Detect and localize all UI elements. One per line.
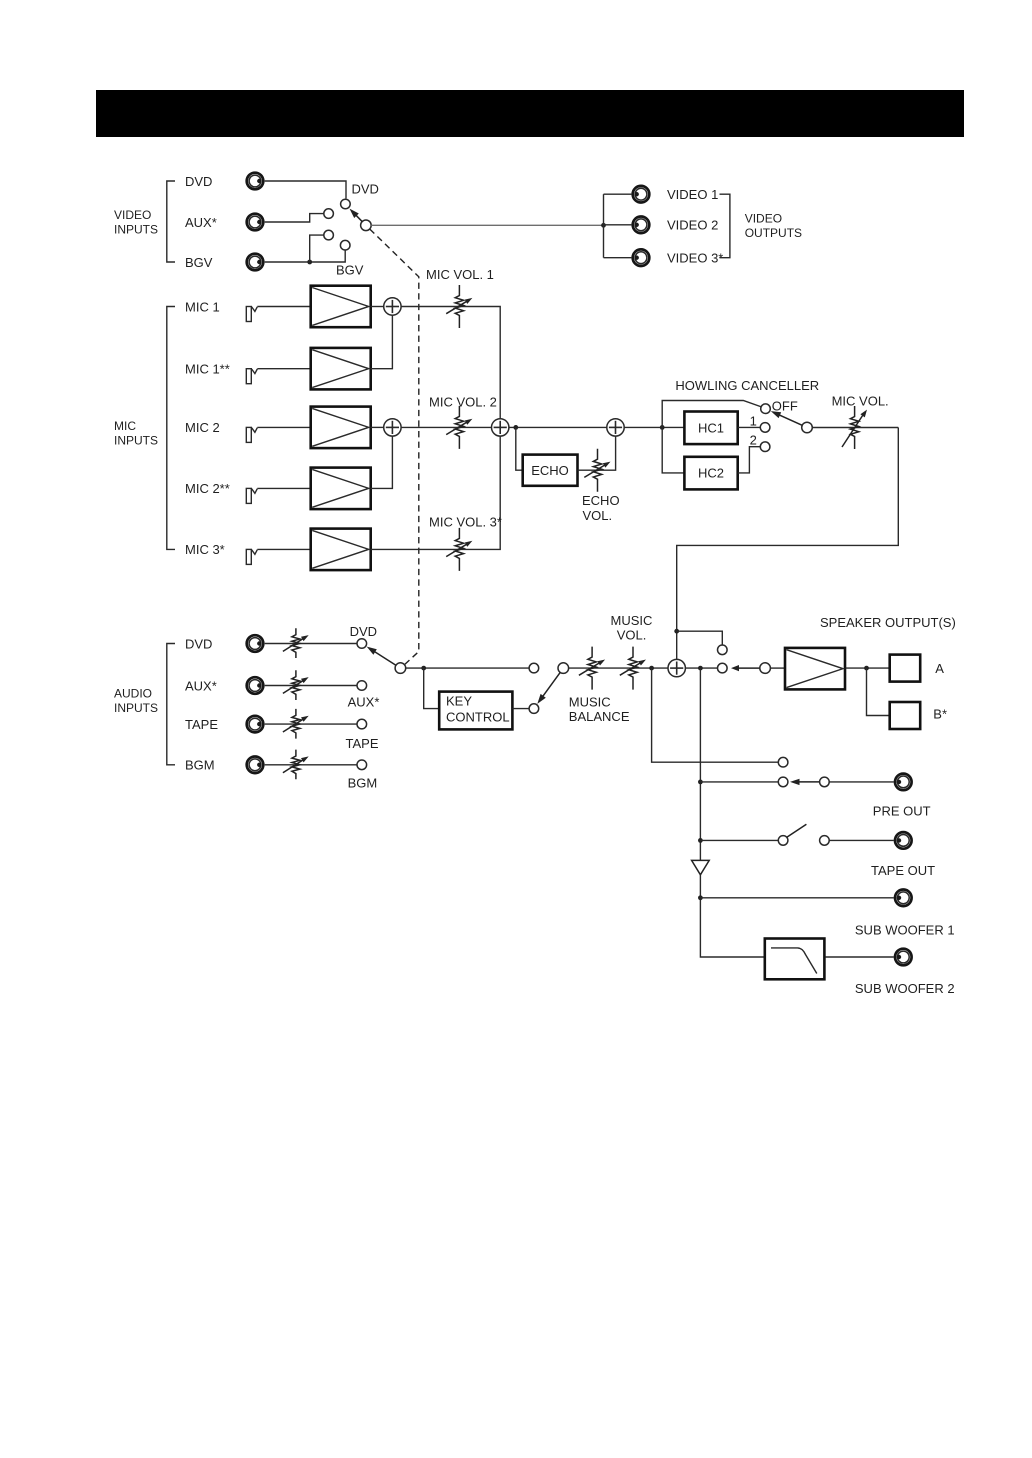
wire MIC 1** to amp: [257, 368, 310, 370]
wire MIC 1** amp to sum MIC1: [371, 315, 393, 369]
svg-text:VOL.: VOL.: [583, 508, 613, 523]
resistor AUX* trim: [283, 670, 309, 700]
bracket video inputs: [167, 181, 175, 262]
svg-text:BGM: BGM: [348, 775, 378, 790]
pole video selector: [361, 220, 372, 231]
wire MIC 2 sum to mix sum: [401, 426, 492, 428]
connector PRE OUT: [895, 774, 912, 791]
contact tape out switch left: [778, 836, 788, 846]
wire MIC 1 to amp: [257, 306, 310, 308]
wire key control branch: [424, 668, 440, 709]
pole balance switch: [558, 663, 569, 674]
connector AUX* audio input: [247, 677, 264, 694]
svg-text:VIDEO 1: VIDEO 1: [667, 187, 718, 202]
label MIC INPUTS: [114, 419, 158, 448]
svg-text:B*: B*: [933, 707, 947, 722]
svg-text:MIC: MIC: [114, 419, 136, 433]
svg-text:MIC VOL. 1: MIC VOL. 1: [426, 267, 494, 282]
bracket mic inputs: [167, 307, 175, 550]
node tape out branch: [698, 838, 703, 843]
contact speaker switch: [718, 663, 728, 673]
wire BGV video to selector: [265, 250, 346, 262]
wire video output vertical bus: [603, 194, 605, 258]
svg-text:TAPE: TAPE: [185, 717, 218, 732]
wire stub to VIDEO 2: [604, 224, 632, 226]
wire MIC 1 amp to sum: [371, 306, 384, 308]
wire MIC 2** to amp: [257, 487, 310, 489]
wire video selector arm with arrow: [354, 213, 362, 222]
wire pre-out direct branch down: [652, 668, 779, 762]
amplifier MIC 3*: [311, 529, 371, 571]
svg-text:AUX*: AUX*: [185, 678, 217, 693]
resistor TAPE trim: [283, 709, 309, 739]
connector BGV video input: [247, 254, 264, 271]
svg-text:HC1: HC1: [698, 420, 724, 435]
wire HC2 out: [738, 447, 761, 473]
node mute branch junction: [674, 629, 679, 634]
svg-text:BGV: BGV: [336, 263, 364, 278]
connector SUB WOOFER 1: [895, 890, 912, 907]
buffer amp triangle: [692, 860, 710, 874]
wire MIC 3* to amp: [257, 548, 310, 550]
svg-text:MIC VOL. 3*: MIC VOL. 3*: [429, 514, 502, 529]
svg-text:DVD: DVD: [352, 182, 379, 197]
wire sub woofer 1 row: [700, 897, 893, 899]
wire echo branch down: [516, 427, 523, 470]
wire MIC 2** amp to sum MIC2: [371, 436, 393, 489]
contact AUX* (audio selector): [357, 681, 367, 691]
amplifier MIC 1**: [311, 348, 371, 390]
contact pre out post-sum: [778, 777, 788, 787]
block HC2: [684, 457, 737, 490]
amplifier MIC 1: [311, 286, 371, 328]
wire mic bus down to main sum: [677, 428, 899, 660]
wire video bus to outputs: [371, 224, 603, 226]
svg-text:KEY: KEY: [446, 694, 472, 709]
contact tape out switch right: [820, 836, 830, 846]
svg-text:OFF: OFF: [772, 398, 798, 413]
resistor MIC VOL. master: [842, 406, 867, 449]
svg-text:AUDIO: AUDIO: [114, 687, 152, 701]
resistor MUSIC BALANCE: [579, 647, 605, 690]
wire AUX* video to selector: [265, 214, 324, 222]
wire sub bus below triangle: [700, 875, 764, 958]
wire TAPE audio to selector: [265, 723, 357, 725]
svg-text:BALANCE: BALANCE: [569, 709, 630, 724]
wire AUX* audio to selector: [265, 685, 357, 687]
connector MIC 3* jack: [246, 549, 257, 564]
label ECHO VOL.: [582, 493, 620, 523]
svg-text:TAPE: TAPE: [346, 736, 379, 751]
block speaker B: [890, 702, 921, 729]
contact DVD (audio selector): [357, 639, 367, 649]
svg-text:MIC 1: MIC 1: [185, 299, 220, 314]
svg-text:ECHO: ECHO: [582, 493, 620, 508]
svg-text:OUTPUTS: OUTPUTS: [745, 226, 802, 240]
connector BGM audio input: [247, 757, 264, 774]
svg-text:HC2: HC2: [698, 466, 724, 481]
connector TAPE OUT: [895, 832, 912, 849]
amplifier power amp: [785, 648, 845, 690]
wire low pass filter to connector: [825, 956, 893, 958]
contact DVD (video selector): [341, 199, 351, 209]
contact HC1 position 1: [760, 423, 770, 433]
wire KEY CONTROL out: [512, 708, 529, 710]
svg-text:VIDEO 3*: VIDEO 3*: [667, 250, 723, 265]
resistor BGM trim: [283, 750, 309, 780]
wire output bus vertical: [699, 668, 701, 861]
svg-text:MIC 3*: MIC 3*: [185, 542, 225, 557]
wire MIC 1 sum to corner: [401, 307, 500, 420]
contact direct (balance switch): [529, 663, 539, 673]
block ECHO: [523, 455, 578, 486]
resistor ECHO VOL.: [584, 449, 610, 492]
node echo return sum: [607, 419, 624, 436]
svg-text:A: A: [935, 661, 944, 676]
resistor MIC VOL. 1: [446, 285, 472, 328]
connector DVD audio input: [247, 635, 264, 652]
wire howling selector arm with arrow: [778, 414, 802, 425]
label MUSIC VOL.: [611, 613, 653, 643]
wire speaker switch arm with arrow: [737, 667, 760, 669]
wire MIC 2 to amp: [257, 426, 310, 428]
node pre-out direct branch: [649, 666, 654, 671]
svg-text:MUSIC: MUSIC: [569, 694, 611, 709]
contact BGV upper (video selector): [324, 230, 334, 240]
svg-text:SUB WOOFER 2: SUB WOOFER 2: [855, 981, 955, 996]
svg-text:MIC 2: MIC 2: [185, 420, 220, 435]
svg-text:ECHO: ECHO: [531, 463, 569, 478]
connector TAPE audio input: [247, 716, 264, 733]
wire MIC 3* amp through vol to mix sum: [371, 436, 501, 550]
node video output junction: [601, 223, 606, 228]
block HC1: [684, 412, 737, 445]
connector AUX* video input: [247, 214, 264, 231]
contact BGM (audio selector): [357, 760, 367, 770]
node mic mix sum: [492, 419, 509, 436]
connector MIC 2 jack: [246, 427, 257, 442]
wire HC1 out: [738, 426, 761, 428]
node key control branch: [421, 666, 426, 671]
bracket audio inputs: [167, 644, 175, 765]
svg-text:CONTROL: CONTROL: [446, 710, 510, 725]
ganged switch dashed link video-audio: [370, 229, 419, 665]
bracket video outputs: [720, 194, 730, 258]
contact BGV lower (video selector): [340, 240, 350, 250]
contact mic-direct (hanging): [718, 645, 728, 655]
block low pass filter: [765, 939, 825, 980]
wire audio bus to balance switch: [406, 667, 529, 669]
svg-text:VIDEO 2: VIDEO 2: [667, 218, 718, 233]
block KEY CONTROL: [439, 692, 512, 730]
wire DVD video to selector: [265, 181, 346, 199]
svg-text:VOL.: VOL.: [617, 628, 647, 643]
svg-text:2: 2: [750, 432, 757, 447]
svg-text:AUX*: AUX*: [348, 694, 380, 709]
contact pre-out direct: [778, 757, 788, 767]
svg-text:MIC VOL.: MIC VOL.: [832, 394, 889, 409]
svg-text:INPUTS: INPUTS: [114, 222, 158, 236]
resistor MIC VOL. 2: [446, 406, 472, 449]
node sub woofer 1 branch: [698, 895, 703, 900]
contact TAPE (audio selector): [357, 719, 367, 729]
node output bus branch: [698, 666, 703, 671]
pole howling selector: [802, 422, 813, 433]
svg-text:DVD: DVD: [185, 636, 212, 651]
connector DVD video input: [247, 173, 264, 190]
resistor MUSIC VOL.: [620, 647, 646, 690]
connector SUB WOOFER 2: [895, 949, 912, 966]
connector VIDEO 1 output: [633, 186, 650, 203]
svg-text:BGV: BGV: [185, 255, 213, 270]
svg-text:INPUTS: INPUTS: [114, 434, 158, 448]
wire main sum to speaker switch: [685, 667, 717, 669]
contact AUX* (video selector): [324, 209, 334, 219]
connector MIC 2** jack: [246, 488, 257, 503]
svg-text:MUSIC: MUSIC: [611, 613, 653, 628]
node pre out branch: [698, 780, 703, 785]
wire tape out open switch arm: [787, 824, 807, 837]
svg-text:MIC 2**: MIC 2**: [185, 481, 230, 496]
svg-text:TAPE OUT: TAPE OUT: [871, 863, 935, 878]
svg-text:VIDEO: VIDEO: [745, 211, 782, 225]
svg-text:PRE OUT: PRE OUT: [873, 803, 931, 818]
wire power amp to speaker A: [846, 667, 890, 669]
label VIDEO OUTPUTS: [745, 211, 802, 239]
node BGV junction: [307, 260, 312, 265]
wire MIC 2 amp to sum: [371, 426, 384, 428]
node sum MIC1: [384, 298, 401, 315]
wire DVD audio to selector: [265, 643, 357, 645]
pole audio selector: [395, 663, 406, 674]
label AUDIO INPUTS: [114, 687, 158, 716]
contact key control (balance switch): [529, 704, 539, 714]
node sum MIC2: [384, 419, 401, 436]
wire pre out row: [700, 781, 778, 783]
connector VIDEO 2 output: [633, 217, 650, 234]
wire balance switch arm with arrow: [542, 672, 560, 697]
amplifier MIC 2: [311, 407, 371, 449]
wire howling pole to mic vol: [812, 427, 898, 429]
pole pre out switch: [820, 777, 830, 787]
wire ECHO out through echo vol: [578, 436, 616, 470]
wire stub to VIDEO 1: [604, 193, 632, 195]
contact HC2 position 2: [760, 442, 770, 452]
svg-text:VIDEO: VIDEO: [114, 208, 151, 222]
amplifier MIC 2**: [311, 468, 371, 510]
wire pole to power amp: [770, 667, 785, 669]
resistor DVD trim: [283, 628, 309, 658]
label MUSIC BALANCE: [569, 694, 630, 724]
wire bypass to OFF contact: [662, 401, 761, 428]
header black title bar: [96, 90, 964, 137]
connector MIC 1** jack: [246, 369, 257, 384]
wire stub to VIDEO 3: [604, 257, 632, 259]
wire pre out switch arm with arrow: [799, 781, 820, 783]
svg-text:BGM: BGM: [185, 758, 215, 773]
svg-text:DVD: DVD: [350, 624, 377, 639]
block speaker A: [890, 655, 921, 682]
wire echo sum to howling junction: [624, 426, 685, 428]
svg-text:SPEAKER OUTPUT(S): SPEAKER OUTPUT(S): [820, 615, 956, 630]
svg-text:1: 1: [750, 413, 757, 428]
node speaker B branch: [864, 666, 869, 671]
wire mute branch: [677, 631, 723, 645]
wire tape out row: [700, 839, 778, 841]
wire to HC2: [662, 427, 684, 473]
svg-text:MIC 1**: MIC 1**: [185, 362, 230, 377]
wire pre out to connector: [829, 781, 894, 783]
svg-text:DVD: DVD: [185, 174, 212, 189]
node echo branch junction: [513, 425, 518, 430]
node main sum: [668, 659, 685, 676]
wire audio selector arm with arrow: [373, 651, 396, 665]
contact OFF: [761, 404, 771, 414]
svg-text:SUB WOOFER 1: SUB WOOFER 1: [855, 922, 955, 937]
label VIDEO INPUTS: [114, 208, 158, 237]
wire BGV branch up: [310, 235, 324, 262]
svg-text:HOWLING CANCELLER: HOWLING CANCELLER: [675, 378, 819, 393]
wire to speaker B: [867, 668, 890, 715]
connector VIDEO 3* output: [633, 249, 650, 266]
wire mic mix sum to echo sum: [509, 426, 607, 428]
wire balance to main sum: [569, 667, 669, 669]
pole speaker switch: [760, 663, 771, 674]
svg-text:MIC VOL. 2: MIC VOL. 2: [429, 394, 497, 409]
resistor MIC VOL. 3*: [446, 528, 472, 571]
wire tape out to connector: [829, 839, 894, 841]
wire BGM audio to selector: [265, 764, 357, 766]
connector MIC 1 jack: [246, 307, 257, 322]
node howling branch junction: [660, 425, 665, 430]
svg-text:AUX*: AUX*: [185, 215, 217, 230]
svg-text:INPUTS: INPUTS: [114, 701, 158, 715]
